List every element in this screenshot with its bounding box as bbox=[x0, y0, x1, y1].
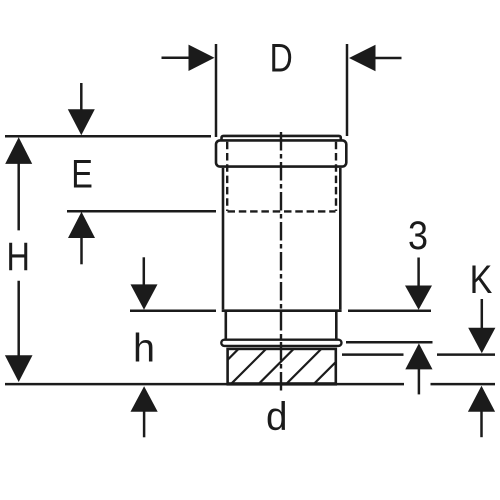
fitting: socket lip bbox=[222, 136, 341, 140]
svg-text:h: h bbox=[133, 327, 155, 371]
fitting: bottom bead bbox=[221, 340, 341, 346]
dimension 3 arrows bbox=[405, 258, 433, 395]
hidden line: socket inner wall left bbox=[226, 142, 228, 211]
wire: D right extension line bbox=[346, 44, 349, 136]
wire: E bottom reference line (socket depth) bbox=[67, 210, 216, 213]
hidden line: socket depth bbox=[228, 210, 336, 212]
dimension E arrows bbox=[68, 83, 95, 264]
wire: K top reference line bbox=[342, 353, 495, 356]
fitting: main body walls bbox=[223, 168, 340, 310]
wire: h top reference line (left of step) bbox=[130, 309, 216, 312]
wire: step reference line right bbox=[348, 309, 431, 312]
pipe spigot bottom thick edge bbox=[227, 382, 338, 385]
dimension H arrows bbox=[5, 137, 33, 382]
wire: D left extension line bbox=[215, 44, 218, 137]
svg-text:d: d bbox=[266, 395, 288, 439]
center line bbox=[280, 132, 282, 393]
pipe spigot cross-section rectangle bbox=[228, 349, 336, 384]
wire: top reference line (top of fitting, H/E datum) bbox=[5, 135, 211, 138]
svg-text:H: H bbox=[7, 235, 30, 279]
dimension K arrows bbox=[468, 299, 496, 437]
svg-text:K: K bbox=[470, 258, 493, 302]
dimension D arrows bbox=[162, 45, 402, 72]
svg-text:D: D bbox=[270, 37, 293, 81]
fitting: lower sleeve walls bbox=[226, 312, 336, 339]
fitting: socket body bbox=[216, 140, 346, 166]
svg-text:3: 3 bbox=[408, 214, 428, 258]
wire: bead bottom reference line right bbox=[346, 341, 433, 344]
hatching bbox=[202, 347, 351, 386]
fitting: step shoulder bbox=[222, 309, 342, 312]
svg-text:E: E bbox=[71, 152, 93, 196]
dimension h arrows bbox=[131, 257, 158, 437]
wire: bottom reference line bbox=[5, 383, 495, 386]
hidden line: socket inner wall right bbox=[335, 142, 337, 211]
